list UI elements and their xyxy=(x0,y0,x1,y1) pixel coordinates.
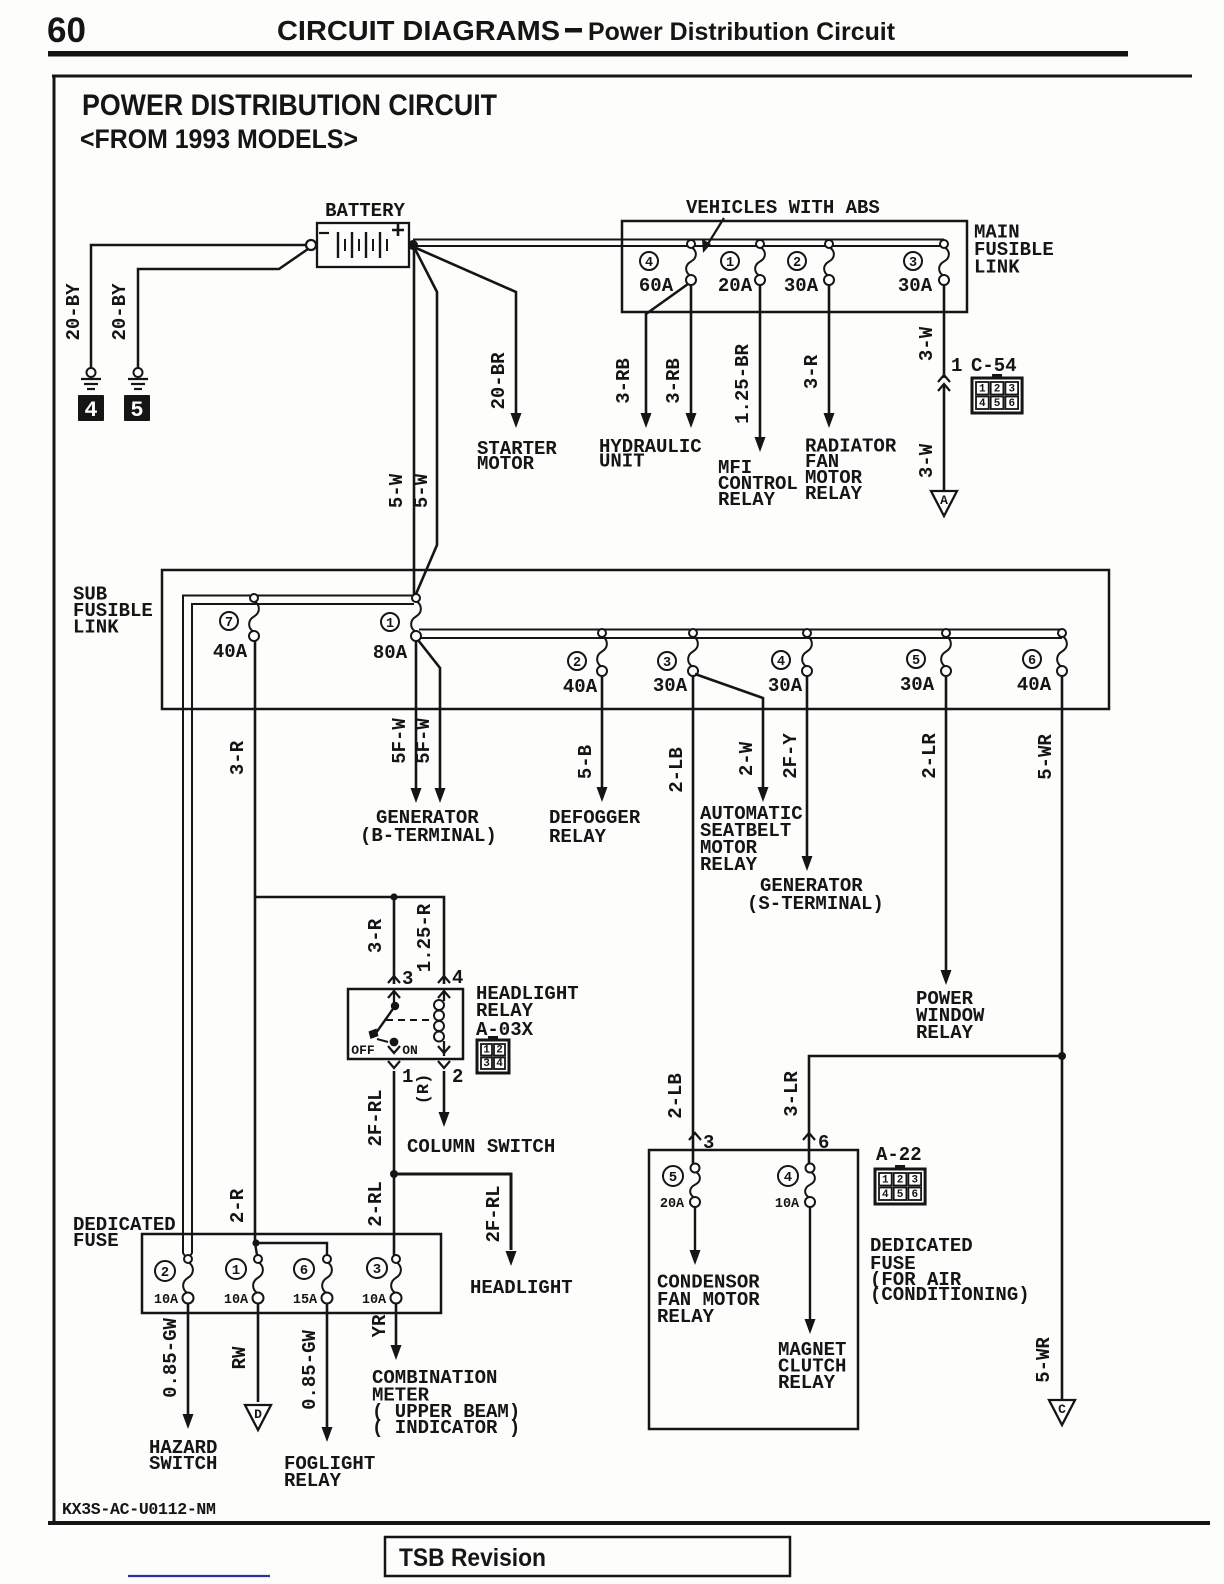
svg-text:30A: 30A xyxy=(898,275,933,297)
blue scan mark xyxy=(128,1575,270,1577)
dedicated fuse 2 number xyxy=(155,1261,175,1281)
svg-text:3: 3 xyxy=(663,656,671,671)
ac fuse 5 20A xyxy=(690,1172,700,1199)
wire 5F-W first from sub fuse 1 xyxy=(415,641,418,795)
arrow to starter motor xyxy=(511,413,522,428)
svg-text:40A: 40A xyxy=(1017,674,1052,696)
sub fusible link 2 40A xyxy=(597,636,607,667)
connector C-54 pin grid xyxy=(972,378,1022,413)
svg-text:Power Distribution Circuit: Power Distribution Circuit xyxy=(588,18,896,46)
wire 5-W second battery to sub fusible link xyxy=(415,249,437,594)
relay switch arm xyxy=(376,1006,395,1033)
fusible link 1 20A xyxy=(755,247,765,276)
relay dashed link to coil xyxy=(386,1019,433,1021)
sub bus 2 upper line xyxy=(419,629,1062,631)
battery negative terminal node xyxy=(306,240,316,250)
svg-text:1: 1 xyxy=(726,256,734,271)
dedicated fuse 3 10A xyxy=(391,1262,401,1294)
svg-text:3-R: 3-R xyxy=(227,740,249,775)
svg-text:2F-RL: 2F-RL xyxy=(365,1089,387,1146)
svg-text:5-W: 5-W xyxy=(386,473,408,508)
arrow generator B second xyxy=(435,788,446,803)
relay coil top lead xyxy=(443,991,445,1001)
sub fusible link 3 30A xyxy=(688,636,698,667)
svg-text:2: 2 xyxy=(496,1045,503,1057)
svg-text:LINK: LINK xyxy=(974,257,1020,279)
sub fusible link 2 number xyxy=(568,652,586,670)
main fusible link box xyxy=(622,221,967,312)
wire 3-R down to headlight relay pin 3 xyxy=(393,897,396,984)
svg-text:20A: 20A xyxy=(718,275,753,297)
svg-text:4: 4 xyxy=(84,398,97,423)
svg-text:( INDICATOR ): ( INDICATOR ) xyxy=(372,1417,520,1439)
svg-text:4: 4 xyxy=(979,398,986,410)
svg-text:3: 3 xyxy=(402,968,413,990)
diagram frame bottom rule xyxy=(48,1521,1210,1525)
svg-text:6: 6 xyxy=(300,1263,308,1279)
svg-text:5: 5 xyxy=(994,398,1001,410)
svg-text:2: 2 xyxy=(897,1175,904,1187)
svg-text:RELAY: RELAY xyxy=(805,483,863,505)
svg-text:10A: 10A xyxy=(775,1197,800,1212)
svg-text:0.85-GW: 0.85-GW xyxy=(160,1318,182,1398)
svg-text:10A: 10A xyxy=(154,1293,179,1308)
wire battery negative to left 20-BY xyxy=(91,245,306,368)
svg-text:5-WR: 5-WR xyxy=(1035,734,1057,780)
connector A-03X pin grid xyxy=(477,1040,509,1073)
wire 5-B from sub fuse 2 xyxy=(601,676,604,794)
fusible link 3 30A xyxy=(939,247,949,276)
svg-text:10A: 10A xyxy=(224,1293,249,1308)
pin 4 chevron outside xyxy=(438,976,450,983)
wire 5F-W second diagonal xyxy=(418,640,440,795)
svg-text:1: 1 xyxy=(483,1045,490,1057)
svg-text:2: 2 xyxy=(793,256,801,271)
svg-text:80A: 80A xyxy=(373,642,408,664)
svg-text:(R): (R) xyxy=(415,1074,434,1105)
svg-text:40A: 40A xyxy=(563,676,598,698)
svg-text:6: 6 xyxy=(1008,398,1015,410)
junction dot 5-WR / 3-LR xyxy=(1058,1052,1066,1060)
wire battery negative to second 20-BY xyxy=(138,249,308,368)
pointer arrow from VEHICLES WITH ABS to fuse 4 xyxy=(706,218,724,247)
pin 3 chevron outside xyxy=(388,976,400,983)
svg-text:4: 4 xyxy=(496,1058,503,1070)
arrow generator B first xyxy=(411,788,422,803)
svg-text:60A: 60A xyxy=(639,275,674,297)
fusible link 2 number xyxy=(788,252,806,270)
svg-text:(CONDITIONING): (CONDITIONING) xyxy=(870,1284,1030,1306)
wire 2-LR from sub fuse 5 xyxy=(945,676,948,977)
svg-text:0.85-GW: 0.85-GW xyxy=(299,1330,321,1410)
svg-text:30A: 30A xyxy=(768,675,803,697)
svg-text:SWITCH: SWITCH xyxy=(149,1453,217,1475)
svg-text:LINK: LINK xyxy=(73,617,119,639)
wire 0.85-GW to foglight relay xyxy=(326,1303,329,1434)
svg-text:(S-TERMINAL): (S-TERMINAL) xyxy=(747,893,884,915)
svg-text:OFF: OFF xyxy=(351,1043,375,1058)
svg-text:2: 2 xyxy=(452,1066,463,1088)
svg-text:1.25-BR: 1.25-BR xyxy=(732,344,754,424)
svg-text:4: 4 xyxy=(784,1170,792,1186)
arrow to hydraulic unit first xyxy=(641,413,652,428)
svg-text:A: A xyxy=(940,493,948,508)
svg-text:60: 60 xyxy=(47,11,86,50)
junction dot at 3-R headlight branch xyxy=(390,893,397,900)
pin 1 chevron inside xyxy=(388,1046,400,1053)
sub fusible link 1 number xyxy=(381,613,399,631)
ground ref square 5 xyxy=(124,395,150,421)
sub fusible link 4 number xyxy=(772,651,790,669)
svg-text:5: 5 xyxy=(912,654,920,669)
wire 20-BR to starter motor xyxy=(416,248,516,420)
svg-text:RELAY: RELAY xyxy=(657,1306,715,1328)
svg-text:4: 4 xyxy=(882,1189,889,1201)
relay switch off contact tail xyxy=(377,1039,388,1042)
pin 2 chevron inside xyxy=(438,1046,450,1053)
svg-text:3: 3 xyxy=(483,1058,490,1070)
fusible link 2 30A xyxy=(824,247,834,276)
svg-text:2: 2 xyxy=(161,1265,169,1281)
svg-text:RELAY: RELAY xyxy=(549,826,607,848)
wire 2-W diagonal from sub fuse 3 xyxy=(695,674,763,794)
svg-text:1: 1 xyxy=(979,384,986,396)
svg-text:30A: 30A xyxy=(653,675,688,697)
header dash xyxy=(565,28,582,33)
dedicated fuse 2 10A xyxy=(183,1262,193,1294)
diagram frame top border xyxy=(52,75,1192,78)
svg-text:15A: 15A xyxy=(293,1293,318,1308)
battery plus sign xyxy=(392,224,404,236)
relay coil loops xyxy=(434,1000,444,1010)
wire from ac fuse 5 xyxy=(694,1207,696,1257)
svg-text:RELAY: RELAY xyxy=(916,1022,974,1044)
svg-text:2F-RL: 2F-RL xyxy=(483,1185,505,1242)
ground G5 xyxy=(134,368,143,377)
wire 3-LR branch horizontal xyxy=(809,1056,1062,1164)
wire 3-W lower to triangle A xyxy=(943,384,946,490)
arrow magnet clutch relay xyxy=(805,1319,816,1334)
arrow condensor fan motor relay xyxy=(690,1250,701,1265)
dedicated fuse 6 15A xyxy=(322,1262,332,1294)
wire YR to combination meter xyxy=(395,1303,398,1352)
svg-text:3-RB: 3-RB xyxy=(613,358,635,404)
air conditioning dedicated fuse box xyxy=(649,1150,858,1429)
svg-text:3-W: 3-W xyxy=(916,443,938,478)
svg-text:C: C xyxy=(1058,1402,1066,1417)
sub fusible link 5 number xyxy=(907,650,925,668)
wire 3-R from sub fuse 7 xyxy=(254,641,257,897)
wire 2F-RL from pin 1 xyxy=(393,1071,396,1174)
wire 2F-RL branch to headlight xyxy=(394,1174,511,1250)
relay ON contact dot xyxy=(390,1038,399,1047)
svg-text:UNIT: UNIT xyxy=(599,451,645,473)
svg-text:10A: 10A xyxy=(362,1293,387,1308)
svg-text:3: 3 xyxy=(373,1262,381,1278)
ground G4 xyxy=(87,368,96,377)
connector C-54 chevron lower xyxy=(938,384,950,391)
pin 4 chevron inside xyxy=(438,991,450,998)
svg-text:3-W: 3-W xyxy=(916,326,938,361)
svg-text:BATTERY: BATTERY xyxy=(325,200,405,222)
svg-text:HEADLIGHT: HEADLIGHT xyxy=(470,1277,573,1299)
svg-text:YR: YR xyxy=(369,1314,391,1337)
arrow hazard switch xyxy=(183,1414,194,1429)
wire branch to dedicated fuse 6 xyxy=(256,1243,327,1255)
svg-text:2: 2 xyxy=(994,384,1001,396)
wire RW to triangle D xyxy=(257,1303,260,1402)
svg-text:20A: 20A xyxy=(660,1197,685,1212)
fusible link 4 number xyxy=(640,252,658,270)
wire 2-LB from sub fuse 3 xyxy=(692,676,695,1164)
pin 1 chevron outside xyxy=(388,1061,400,1068)
diagram frame left border xyxy=(53,76,56,1523)
svg-text:RW: RW xyxy=(229,1346,251,1369)
sub fusible link 1 80A xyxy=(411,601,421,632)
battery positive terminal node xyxy=(408,240,418,250)
svg-text:2-R: 2-R xyxy=(227,1188,249,1223)
svg-text:5: 5 xyxy=(669,1170,677,1186)
sub fusible link 3 number xyxy=(658,652,676,670)
fusible link 4 60A xyxy=(686,247,696,276)
svg-text:2-LB: 2-LB xyxy=(666,747,688,793)
svg-text:5-WR: 5-WR xyxy=(1033,1337,1055,1383)
wire 3-RB straight from fuse 4 xyxy=(690,285,693,420)
svg-text:3-R: 3-R xyxy=(801,354,823,389)
battery plates xyxy=(337,232,339,258)
relay coil bottom lead xyxy=(443,1041,445,1056)
svg-text:4: 4 xyxy=(777,655,785,670)
arrow to MFI control relay xyxy=(755,437,766,452)
svg-text:7: 7 xyxy=(225,616,233,631)
svg-text:5: 5 xyxy=(897,1189,904,1201)
svg-text:3: 3 xyxy=(1008,384,1015,396)
svg-text:POWER DISTRIBUTION CIRCUIT: POWER DISTRIBUTION CIRCUIT xyxy=(82,89,497,122)
wire 3-RB diagonal from fuse 4 xyxy=(646,284,688,420)
arrow power window relay xyxy=(941,970,952,985)
svg-text:(B-TERMINAL): (B-TERMINAL) xyxy=(360,825,497,847)
sub fusible link 7 number xyxy=(220,612,238,630)
arrow generator S terminal xyxy=(802,856,813,871)
sub fusible link box xyxy=(162,570,1109,709)
svg-text:A-22: A-22 xyxy=(876,1144,922,1166)
svg-text:A-03X: A-03X xyxy=(476,1019,534,1041)
header rule xyxy=(48,51,1128,57)
wire 5-W first battery to sub fusible link xyxy=(413,247,416,596)
svg-text:6: 6 xyxy=(911,1189,918,1201)
svg-text:CIRCUIT DIAGRAMS: CIRCUIT DIAGRAMS xyxy=(277,15,560,46)
svg-text:2-W: 2-W xyxy=(736,741,758,776)
svg-text:1: 1 xyxy=(386,617,394,632)
svg-text:2: 2 xyxy=(573,656,581,671)
ground ref square 4 xyxy=(78,395,104,421)
svg-text:40A: 40A xyxy=(213,641,248,663)
arrow to hydraulic unit second xyxy=(686,413,697,428)
svg-text:20-BY: 20-BY xyxy=(109,283,131,341)
svg-text:1.25-R: 1.25-R xyxy=(414,903,436,972)
connector A-22 pin grid xyxy=(875,1169,925,1204)
ac fuse 5 number xyxy=(663,1166,683,1186)
wire 0.85-GW to hazard switch xyxy=(187,1303,190,1421)
svg-text:D: D xyxy=(254,1407,262,1422)
svg-text:30A: 30A xyxy=(900,674,935,696)
headlight relay A-03X box xyxy=(348,989,463,1059)
svg-text:5: 5 xyxy=(130,398,143,423)
svg-text:2-LB: 2-LB xyxy=(665,1073,687,1119)
wire junction horizontal 3-R to 1.25-R xyxy=(255,897,444,984)
sub fusible link 4 30A xyxy=(802,636,812,667)
svg-text:2F-Y: 2F-Y xyxy=(780,733,802,779)
svg-text:ON: ON xyxy=(402,1043,418,1058)
ac fuse 4 number xyxy=(778,1166,798,1186)
pin 2 chevron outside xyxy=(438,1061,450,1068)
dedicated fuse 3 number xyxy=(367,1258,387,1278)
svg-text:6: 6 xyxy=(1028,654,1036,669)
wire R from pin 2 to column switch xyxy=(443,1071,446,1119)
svg-text:2-LR: 2-LR xyxy=(919,733,941,779)
svg-text:4: 4 xyxy=(645,256,653,271)
svg-text:1: 1 xyxy=(402,1066,413,1088)
arrow to radiator fan motor relay xyxy=(824,413,835,428)
wire 2-R down to dedicated fuse box xyxy=(254,897,257,1243)
off-page triangle D xyxy=(245,1405,271,1430)
svg-text:RELAY: RELAY xyxy=(718,489,776,511)
arrow combination meter xyxy=(391,1345,402,1360)
svg-text:20-BR: 20-BR xyxy=(488,352,510,410)
dedicated fuse 1 10A xyxy=(253,1262,263,1294)
pin 6 chevron condensor box xyxy=(803,1133,815,1140)
svg-text:4: 4 xyxy=(452,967,463,989)
sub fusible link 5 30A xyxy=(941,636,951,667)
battery B1 box xyxy=(317,223,409,267)
svg-text:FUSE: FUSE xyxy=(73,1230,119,1252)
svg-text:1: 1 xyxy=(882,1175,889,1187)
svg-text:5-W: 5-W xyxy=(411,473,433,508)
svg-text:3: 3 xyxy=(909,256,917,271)
fusible link 3 number xyxy=(904,252,922,270)
svg-text:RELAY: RELAY xyxy=(284,1470,342,1492)
svg-text:5F-W: 5F-W xyxy=(389,718,411,764)
junction dot 2-R branch xyxy=(252,1239,259,1246)
relay switch arm arrowhead xyxy=(369,1029,379,1040)
svg-text:5-B: 5-B xyxy=(575,745,597,779)
arrow foglight relay xyxy=(322,1427,333,1442)
relay switch pivot wire xyxy=(393,991,395,1004)
dedicated fuse 1 number xyxy=(226,1259,246,1279)
svg-text:20-BY: 20-BY xyxy=(63,283,85,341)
svg-text:TSB Revision: TSB Revision xyxy=(399,1544,546,1572)
off-page triangle C xyxy=(1049,1400,1075,1425)
wire 5-WR from sub fuse 6 xyxy=(1061,676,1064,1399)
bus battery positive upper line xyxy=(413,239,944,241)
svg-text:COLUMN SWITCH: COLUMN SWITCH xyxy=(407,1136,555,1158)
wire 3-R from fuse 2 xyxy=(828,285,831,420)
dedicated fuse 6 number xyxy=(294,1259,314,1279)
relay switch pivot dot xyxy=(391,1002,399,1010)
svg-text:MOTOR: MOTOR xyxy=(477,453,535,475)
pin 3 chevron inside xyxy=(388,991,400,998)
dedicated fuse box xyxy=(142,1234,441,1313)
off-page triangle A xyxy=(931,491,957,516)
battery minus sign xyxy=(319,232,329,234)
sub bus lower line xyxy=(190,604,414,1256)
svg-text:C-54: C-54 xyxy=(971,355,1017,377)
svg-text:VEHICLES WITH ABS: VEHICLES WITH ABS xyxy=(686,197,880,219)
junction dot 2F-RL headlight branch xyxy=(390,1170,398,1178)
wire 2-R into dedicated fuse 1 xyxy=(255,1243,257,1255)
svg-text:<FROM 1993 MODELS>: <FROM 1993 MODELS> xyxy=(80,124,358,154)
sub fusible link 6 number xyxy=(1023,650,1041,668)
sub bus upper line xyxy=(183,596,414,1257)
svg-text:1: 1 xyxy=(232,1263,240,1279)
svg-text:KX3S-AC-U0112-NM: KX3S-AC-U0112-NM xyxy=(62,1500,216,1519)
svg-text:30A: 30A xyxy=(784,275,819,297)
bus battery positive lower line xyxy=(413,245,944,247)
sub fusible link 7 40A xyxy=(249,601,259,632)
svg-text:5F-W: 5F-W xyxy=(413,718,435,764)
arrow defogger relay xyxy=(597,787,608,802)
sub bus 2 lower line xyxy=(420,637,1062,639)
sub fusible link 6 40A xyxy=(1057,636,1067,667)
pin 3 chevron condensor box xyxy=(689,1133,701,1140)
wire 2-RL down to dedicated fuse 3 xyxy=(393,1174,396,1255)
svg-text:1: 1 xyxy=(951,355,962,377)
svg-text:3-LR: 3-LR xyxy=(781,1071,803,1117)
wire 2F-Y from sub fuse 4 xyxy=(806,676,809,863)
arrow headlight xyxy=(506,1251,517,1266)
svg-text:RELAY: RELAY xyxy=(700,854,758,876)
arrow column switch xyxy=(439,1112,450,1127)
wire from ac fuse 4 xyxy=(809,1207,811,1326)
arrow automatic seatbelt xyxy=(758,787,769,802)
TSB revision box xyxy=(385,1537,790,1576)
svg-text:RELAY: RELAY xyxy=(778,1372,836,1394)
svg-text:3-RB: 3-RB xyxy=(663,358,685,404)
fusible link 1 number xyxy=(721,252,739,270)
connector C-54 chevron upper xyxy=(938,375,950,382)
svg-text:3: 3 xyxy=(911,1175,918,1187)
ac fuse 4 10A xyxy=(805,1172,815,1199)
svg-text:3-R: 3-R xyxy=(365,918,387,953)
wire 1.25-BR from fuse 1 xyxy=(759,285,762,444)
svg-text:2-RL: 2-RL xyxy=(365,1181,387,1227)
wire 3-W from fuse 3 upper xyxy=(943,285,946,378)
